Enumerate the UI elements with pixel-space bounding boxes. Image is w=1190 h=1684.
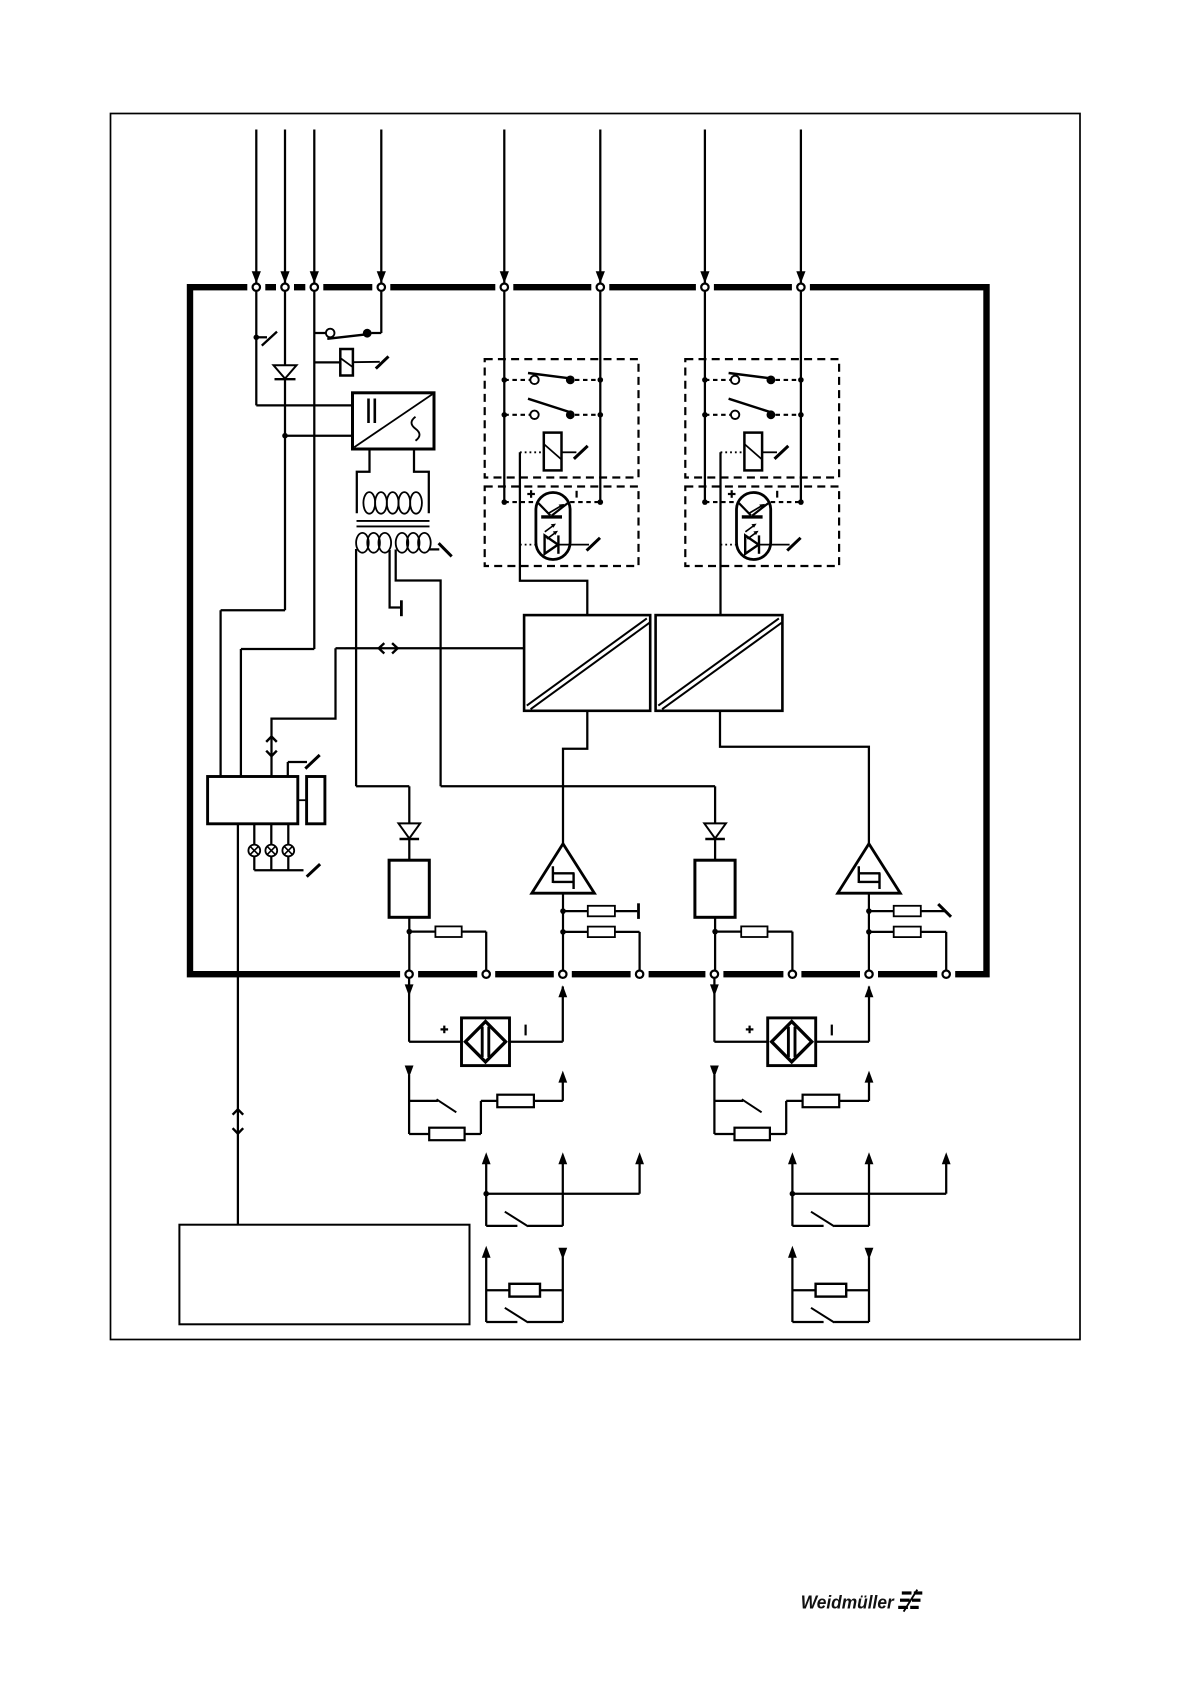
op-amp right bbox=[838, 844, 901, 893]
wire ch2 contact row b bbox=[834, 1225, 869, 1227]
config switch tick bbox=[305, 755, 319, 769]
wire down to microcontroller 2 bbox=[240, 649, 242, 777]
wire t3 jog left bbox=[241, 648, 314, 650]
crystal box bbox=[307, 777, 325, 824]
wire ch1 ext loop return bbox=[510, 1041, 563, 1043]
wire left terminal line A bbox=[503, 291, 505, 502]
junction left B2 bbox=[598, 412, 604, 418]
wire ch2 par res link bbox=[770, 1133, 786, 1135]
junction right B2 bbox=[798, 412, 804, 418]
wire comm down bbox=[272, 648, 336, 776]
wire t2 below diode bbox=[284, 379, 286, 436]
contact row2 right fixed bbox=[767, 410, 776, 419]
feedback resistor right 2 bbox=[894, 927, 921, 938]
wire jog left bbox=[221, 609, 285, 611]
arrow into terminal 6 bbox=[596, 271, 605, 283]
feedback resistor left 2 bbox=[588, 927, 615, 938]
junction left A3 bbox=[502, 499, 508, 505]
junction right fb1 bbox=[866, 908, 872, 914]
comm symbol left chevron bbox=[379, 643, 385, 653]
optocoupler right output line bbox=[759, 544, 790, 546]
wire ch2 contact A bbox=[791, 1163, 793, 1226]
wire ch1 contact A bbox=[485, 1163, 487, 1226]
wire to LED lamp 2 bbox=[270, 824, 272, 845]
arrow ch1 ext loop bbox=[405, 984, 414, 996]
wire right terminal line B bbox=[800, 291, 802, 502]
contact row1 left dashed right bbox=[575, 379, 600, 381]
optocoupler left light arrow 2 bbox=[547, 533, 555, 539]
wire input 3 from top bbox=[313, 130, 315, 284]
optocoupler right LED edges bbox=[739, 503, 751, 515]
arrow ch1 sensor down bbox=[405, 1066, 414, 1078]
wire right op-amp output bbox=[868, 893, 870, 970]
comm updown chevrons bbox=[266, 737, 277, 742]
optocoupler right photodiode bar bbox=[758, 535, 760, 553]
wire right fb2 bbox=[869, 931, 894, 933]
load block right bbox=[695, 860, 735, 917]
label right plus bbox=[728, 493, 736, 495]
junction ch1 contact bbox=[483, 1191, 489, 1197]
arrow into terminal 5 bbox=[500, 271, 509, 283]
terminal top 1 bbox=[253, 284, 260, 291]
wire input 8 from top bbox=[800, 130, 802, 284]
contact row2 left pivot bbox=[530, 411, 538, 419]
contact row2 right dashed left bbox=[705, 414, 731, 416]
wire rail down right diode bbox=[714, 786, 716, 823]
terminal top 3 bbox=[311, 284, 318, 291]
terminal bottom 7 bbox=[865, 971, 872, 978]
wire t4 down bbox=[380, 291, 382, 333]
wire input 6 from top bbox=[599, 130, 601, 284]
optocoupler right output tick bbox=[787, 538, 800, 551]
wire right to sense resistor bbox=[715, 930, 741, 932]
wire comm to block bbox=[336, 647, 525, 649]
selector lever bbox=[327, 334, 367, 339]
arrow ch2 ext loop up bbox=[865, 985, 874, 997]
terminal top 6 bbox=[597, 284, 604, 291]
wire center tap down bbox=[390, 550, 401, 608]
row3 left dashed right bbox=[570, 501, 600, 503]
device enclosure thick border bbox=[190, 287, 987, 974]
wire ch1 contact B bbox=[562, 1163, 564, 1226]
dotted drive to LED left bbox=[520, 544, 536, 546]
transmitter ch2 diamond bbox=[772, 1022, 812, 1062]
wire ch2 sensor to terminal bbox=[839, 1100, 869, 1102]
sense resistor left bbox=[435, 926, 461, 937]
switch ch2 contact blade bbox=[811, 1212, 834, 1227]
arrow into terminal 7 bbox=[700, 271, 709, 283]
wire right fb1 bbox=[869, 910, 894, 912]
comm symbol right chevron bbox=[392, 643, 398, 653]
optocoupler right LED bar bbox=[742, 515, 763, 518]
transmitter ch1 bars bbox=[481, 1027, 484, 1057]
dotted drive to coil right bbox=[721, 451, 745, 453]
switch ch2 sensor blade bbox=[742, 1099, 762, 1112]
contact row2 left dashed left bbox=[504, 414, 530, 416]
switch ch1 namur blade bbox=[505, 1308, 528, 1323]
wire t1 down bbox=[255, 291, 257, 406]
relay K1 actuator line bbox=[353, 361, 380, 363]
dashed option box right relay bbox=[685, 359, 839, 477]
switch S1 stub bbox=[256, 336, 267, 338]
wire right drive down bbox=[719, 452, 721, 615]
wire ch1 contact C bbox=[638, 1163, 640, 1194]
transmitter ch2 bars bbox=[787, 1027, 790, 1057]
contact row1 right fixed bbox=[767, 376, 776, 385]
junction right A2 bbox=[702, 412, 708, 418]
wire t3 to selector bbox=[314, 332, 326, 334]
wire ch1 namur row bbox=[486, 1321, 517, 1323]
dashed option box right solid-state bbox=[685, 487, 839, 567]
wire right fb2 to terminal bbox=[921, 931, 946, 933]
wire input 1 from top bbox=[255, 130, 257, 284]
junction left B1 bbox=[598, 377, 604, 383]
wire right terminal line A bbox=[704, 291, 706, 502]
secondary tap tick bbox=[439, 543, 452, 556]
wire ch2 namur row b bbox=[834, 1321, 869, 1323]
relay coil K1 diagonal bbox=[340, 358, 353, 367]
optocoupler left photodiode bbox=[545, 535, 558, 553]
junction t1 switch bbox=[253, 335, 259, 341]
wire LED lamp 3 down bbox=[287, 856, 289, 870]
wire ch2 namur row bbox=[792, 1321, 823, 1323]
terminal top 8 bbox=[797, 284, 804, 291]
load block left bbox=[389, 860, 429, 917]
terminal top 7 bbox=[701, 284, 708, 291]
wire to LED lamp 3 bbox=[287, 824, 289, 845]
wire t3 to relay coil K1 bbox=[314, 361, 340, 363]
wire ch1 sensor left bbox=[408, 1075, 410, 1134]
terminal bottom 5 bbox=[711, 971, 718, 978]
wire ch1 sensor switch row bbox=[409, 1100, 438, 1102]
wire ch2 namur res row bbox=[792, 1289, 815, 1291]
arrow ch2 contact up C bbox=[942, 1152, 951, 1164]
wire ch1 namur B bbox=[562, 1257, 564, 1322]
wire left fb2 bbox=[563, 931, 588, 933]
wire ch1 ext loop down bbox=[408, 978, 410, 1042]
isolation block left diagonals bbox=[527, 618, 647, 705]
wire t3 down bbox=[313, 291, 315, 649]
transmitter box ch1 bbox=[462, 1018, 510, 1066]
sense resistor right bbox=[741, 926, 767, 937]
wire ch2 ext loop bottom bbox=[714, 1041, 767, 1043]
relay coil right bbox=[744, 433, 762, 471]
optocoupler left LED edges bbox=[538, 503, 550, 515]
contact row1 right pivot bbox=[731, 376, 739, 384]
arrow ch1 namur up bbox=[482, 1246, 491, 1258]
optocoupler left output tick bbox=[587, 538, 600, 551]
terminal gaps in border bbox=[247, 282, 265, 292]
diode left bar bbox=[400, 838, 420, 840]
wire ch1 contact row bbox=[486, 1225, 517, 1227]
terminal bottom 2 bbox=[483, 971, 490, 978]
U1 DC bars bbox=[367, 399, 370, 424]
dotted drive to LED right bbox=[721, 544, 737, 546]
wire ch2 sensor left bbox=[713, 1075, 715, 1134]
relay coil right diagonal bbox=[744, 444, 762, 460]
wire t1 to converter bbox=[256, 404, 352, 406]
wire left op-amp output bbox=[562, 893, 564, 970]
wire ch1 par res link bbox=[465, 1133, 481, 1135]
op-amp left hysteresis glyph bbox=[553, 866, 575, 889]
optocoupler left LED bar bbox=[541, 515, 562, 518]
row3 right dashed right bbox=[771, 501, 801, 503]
wire ch2 ext loop return bbox=[816, 1041, 869, 1043]
lamp bus tick bbox=[307, 864, 320, 877]
optocoupler left output line bbox=[558, 544, 589, 546]
wire U1 to primary left bbox=[357, 449, 370, 513]
contact row2 right dashed right bbox=[776, 414, 801, 416]
label ch1 ext I bbox=[524, 1025, 526, 1036]
relay coil K1 bbox=[340, 349, 353, 376]
op-amp right hysteresis glyph bbox=[859, 866, 881, 889]
U1 AC wave bbox=[412, 417, 420, 441]
contact row2 right lever bbox=[729, 399, 772, 413]
optocoupler left light arrow 1 bbox=[545, 526, 553, 532]
junction right load bbox=[712, 929, 718, 935]
transformer T1 secondary left winding bbox=[356, 533, 369, 553]
terminal bottom 8 bbox=[943, 971, 950, 978]
feedback resistor right 1 bbox=[894, 906, 921, 917]
junction left load bbox=[407, 929, 413, 935]
wire t2 to converter bbox=[285, 435, 353, 437]
wire left terminal line B bbox=[599, 291, 601, 502]
wire ch2 namur A bbox=[791, 1257, 793, 1323]
switch ch1 sensor blade bbox=[437, 1099, 457, 1112]
optocoupler right light arrow 1 bbox=[745, 526, 753, 532]
contact row2 left lever bbox=[528, 399, 571, 413]
rail to left channel bbox=[356, 785, 409, 787]
wire input 7 from top bbox=[704, 130, 706, 284]
arrow ch2 contact up A bbox=[788, 1152, 797, 1164]
wire right diode to load bbox=[714, 839, 716, 860]
label ch1 ext plus bbox=[441, 1028, 449, 1030]
row3 left dashed left bbox=[504, 501, 536, 503]
arrow into terminal 8 bbox=[796, 271, 805, 283]
arrow ch1 contact up C bbox=[635, 1152, 644, 1164]
arrow ch2 namur down bbox=[865, 1248, 874, 1260]
diode D1 cathode bar bbox=[275, 378, 296, 380]
parallel resistor ch2 bbox=[735, 1128, 770, 1141]
wire ch1 sensor res row bbox=[409, 1133, 429, 1135]
wire ch1 ext loop bottom bbox=[409, 1041, 461, 1043]
isolation block left half bbox=[524, 615, 650, 711]
namur resistor ch2 bbox=[816, 1284, 847, 1297]
label left I bbox=[575, 491, 577, 498]
wire selector to t4 bbox=[372, 332, 382, 334]
diode D1 bbox=[274, 365, 297, 378]
wire ch1 namur A bbox=[485, 1257, 487, 1323]
wire left diode to load bbox=[408, 839, 410, 860]
arrow ch2 ext loop bbox=[710, 984, 719, 996]
wire to LED lamp 1 bbox=[253, 824, 255, 845]
junction left A2 bbox=[502, 412, 508, 418]
wire ch2 sensor node bbox=[786, 1100, 802, 1102]
arrow ch2 namur up bbox=[788, 1246, 797, 1258]
contact row1 right lever bbox=[729, 373, 772, 378]
junction right fb2 bbox=[866, 929, 872, 935]
junction right B3 bbox=[798, 499, 804, 505]
wire LED lamp 2 down bbox=[270, 856, 272, 870]
fb1 tick right bbox=[938, 904, 951, 917]
optocoupler left photodiode bar bbox=[557, 535, 559, 553]
wire ch2 ext loop down bbox=[713, 978, 715, 1042]
transformer T1 secondary right winding bbox=[396, 533, 409, 553]
optocoupler left LED arrow bbox=[549, 506, 562, 513]
wire left sense to terminal bbox=[462, 930, 487, 932]
optocoupler right capsule bbox=[737, 493, 771, 560]
wire ch2 contact bridge bbox=[792, 1193, 946, 1195]
wire left load down bbox=[408, 917, 410, 970]
junction left A1 bbox=[502, 377, 508, 383]
wire ch1 contact row b bbox=[528, 1225, 563, 1227]
wire LED lamp 1 down bbox=[253, 856, 255, 870]
wire input 4 from top bbox=[380, 130, 382, 284]
arrow ch1 ext loop up bbox=[558, 985, 567, 997]
series resistor ch1 bbox=[497, 1095, 534, 1108]
junction right A1 bbox=[702, 377, 708, 383]
switch ch2 namur blade bbox=[811, 1308, 834, 1323]
arrow into terminal 4 bbox=[377, 271, 386, 283]
label right I bbox=[776, 491, 778, 498]
label ch2 ext I bbox=[831, 1025, 833, 1036]
power converter U1 box bbox=[353, 393, 435, 449]
dotted drive to coil left bbox=[520, 451, 544, 453]
selector pivot circle bbox=[326, 329, 335, 338]
switch S1 blade bbox=[262, 332, 277, 346]
optocoupler right LED arrow bbox=[750, 506, 763, 513]
arrow ch1 contact up A bbox=[482, 1152, 491, 1164]
feedback resistor left 1 bbox=[588, 906, 615, 917]
arrow into terminal 1 bbox=[252, 271, 261, 283]
contact row1 right dashed left bbox=[705, 379, 731, 381]
relay coil left bbox=[544, 433, 562, 471]
terminal-block updown chevrons bbox=[233, 1109, 244, 1114]
arrow ch1 namur down bbox=[558, 1248, 567, 1260]
terminal bottom 3 bbox=[559, 971, 566, 978]
wire ch2 sensor res row bbox=[714, 1133, 734, 1135]
wire left fb2 to terminal bbox=[615, 931, 640, 933]
wire left fb1 bbox=[563, 910, 588, 912]
wire rail down left diode bbox=[408, 786, 410, 823]
wire ch1 sensor to terminal bbox=[534, 1100, 563, 1102]
contact row1 left fixed bbox=[566, 376, 575, 385]
namur resistor ch1 bbox=[509, 1284, 540, 1297]
U1 diagonal bbox=[354, 394, 432, 447]
wire secondary tap stub bbox=[429, 548, 439, 550]
page border bbox=[111, 114, 1081, 1340]
junction left B3 bbox=[598, 499, 604, 505]
wire ch2 sensor switch row bbox=[714, 1100, 743, 1102]
wire secondary right inner bbox=[396, 550, 441, 787]
terminal block box bbox=[179, 1225, 469, 1325]
wire input 2 from top bbox=[284, 130, 286, 284]
optocoupler right photodiode bbox=[745, 535, 758, 553]
arrow ch1 contact up B bbox=[558, 1152, 567, 1164]
label left plus bbox=[527, 493, 535, 495]
wire t2 down bbox=[284, 291, 286, 365]
relay K1 actuator tick bbox=[376, 356, 389, 368]
wire ch1 namur row b bbox=[528, 1321, 563, 1323]
shield bar bbox=[400, 600, 403, 616]
junction right A3 bbox=[702, 499, 708, 505]
wire U1 to primary right bbox=[414, 449, 429, 513]
wire right load down bbox=[714, 917, 716, 970]
terminal bottom 4 bbox=[636, 971, 643, 978]
relay coil left diagonal bbox=[544, 444, 562, 460]
junction right B1 bbox=[798, 377, 804, 383]
wire left to sense resistor bbox=[409, 930, 435, 932]
wire ch1 namur res row bbox=[486, 1289, 509, 1291]
logo mark bbox=[902, 1591, 912, 1594]
relay coil right actuator bbox=[762, 451, 777, 453]
contact row1 right dashed right bbox=[776, 379, 801, 381]
dashed option box left relay bbox=[485, 359, 639, 477]
contact row2 left fixed bbox=[566, 410, 575, 419]
arrow into terminal 2 bbox=[280, 271, 289, 283]
wire ch2 contact row bbox=[792, 1225, 823, 1227]
contact row1 left pivot bbox=[530, 376, 538, 384]
isolation block right diagonals bbox=[658, 618, 779, 705]
LED lamp 2 bbox=[265, 845, 277, 857]
LED lamp 3 bbox=[282, 845, 294, 857]
row3 right dashed left bbox=[705, 501, 737, 503]
junction left fb1 bbox=[560, 908, 566, 914]
wire block left output bbox=[563, 711, 587, 844]
label ch2 ext plus bbox=[746, 1028, 754, 1030]
relay coil left actuator bbox=[562, 451, 577, 453]
relay coil right tick bbox=[775, 446, 789, 459]
wire ch2 namur res link bbox=[846, 1289, 869, 1291]
junction ch2 contact bbox=[790, 1191, 796, 1197]
contact row2 left dashed right bbox=[575, 414, 600, 416]
wire block right output bbox=[720, 711, 869, 844]
diode left supply bbox=[399, 823, 421, 838]
wire ch1 sensor node bbox=[481, 1100, 497, 1102]
terminal top 2 bbox=[281, 284, 288, 291]
terminal top 4 bbox=[378, 284, 385, 291]
selector fixed contact bbox=[363, 329, 372, 338]
switch ch1 contact blade bbox=[505, 1212, 528, 1227]
fb1 terminator bar left bbox=[637, 903, 640, 919]
diode right bar bbox=[705, 838, 725, 840]
arrow ch2 contact up B bbox=[865, 1152, 874, 1164]
optocoupler left capsule bbox=[536, 493, 570, 560]
op-amp left bbox=[532, 844, 595, 893]
arrow ch2 sensor up bbox=[865, 1071, 874, 1083]
transformer T1 primary winding bbox=[363, 492, 375, 514]
svg-text:Weidmüller: Weidmüller bbox=[801, 1591, 896, 1612]
lamp common bus bbox=[254, 869, 303, 871]
wire ch2 contact C bbox=[945, 1163, 947, 1194]
wire secondary left end down bbox=[355, 549, 357, 786]
series resistor ch2 bbox=[803, 1095, 840, 1108]
wire ch1 contact bridge bbox=[486, 1193, 639, 1195]
optocoupler right light arrow 2 bbox=[747, 533, 755, 539]
terminal top 5 bbox=[501, 284, 508, 291]
terminal bottom 1 bbox=[405, 971, 412, 978]
contact row1 left lever bbox=[528, 373, 571, 378]
LED lamp 1 bbox=[248, 845, 260, 857]
contact row1 left dashed left bbox=[504, 379, 530, 381]
microcontroller box bbox=[208, 777, 298, 824]
wire ch2 contact B bbox=[868, 1163, 870, 1226]
config switch at microcontroller bbox=[287, 762, 289, 777]
arrow ch2 sensor down bbox=[710, 1066, 719, 1078]
wire input 5 from top bbox=[503, 130, 505, 284]
transmitter box ch2 bbox=[768, 1018, 816, 1066]
wire t2 long down bbox=[284, 436, 286, 611]
